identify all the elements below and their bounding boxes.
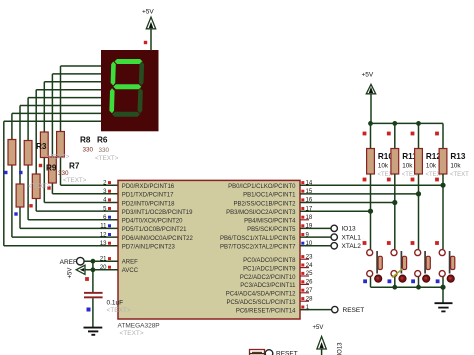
svg-text:PD6/AIN0/OC0A/PCINT22: PD6/AIN0/OC0A/PCINT22 xyxy=(122,236,194,242)
marker blue button 3 xyxy=(436,279,440,283)
wire R11 to net xyxy=(394,174,396,249)
pin marker 3 xyxy=(108,190,111,193)
resistor R13 10k xyxy=(439,149,447,175)
marker blue button 1 xyxy=(388,279,392,283)
wire MCU pin to col0 xyxy=(300,210,371,212)
marker red above R13 xyxy=(435,132,439,136)
segment B (off) xyxy=(139,62,144,86)
marker red below R11 xyxy=(387,178,391,182)
capacitor C1 0.1uF xyxy=(84,292,103,298)
component stub bottom xyxy=(250,350,265,355)
svg-text:26: 26 xyxy=(306,280,313,286)
pin marker 12 xyxy=(108,233,111,236)
pin marker 19 xyxy=(301,224,304,227)
wire bus to R10 top xyxy=(370,123,372,148)
svg-text:PB5/SCK/PCINT5: PB5/SCK/PCINT5 xyxy=(247,227,296,233)
svg-text:PC3/ADC3/PCINT11: PC3/ADC3/PCINT11 xyxy=(240,283,296,289)
wire pin10 to XTAL2 xyxy=(300,245,331,247)
marker red xyxy=(47,186,50,189)
terminal XTAL1 xyxy=(331,234,337,240)
wire reset bottom xyxy=(250,353,266,355)
svg-text:330: 330 xyxy=(99,147,110,154)
segment G (lit) xyxy=(113,84,141,89)
marker blue xyxy=(14,212,17,215)
resistor R8 330 on segment net 2 xyxy=(40,132,48,158)
junction bus col1 xyxy=(392,121,397,126)
junction bus col2 xyxy=(416,121,421,126)
svg-text:<TEXT>: <TEXT> xyxy=(120,330,144,337)
pin marker 16 xyxy=(301,198,304,201)
resistor R12 10k xyxy=(415,149,423,175)
svg-text:RESET: RESET xyxy=(276,351,298,355)
svg-text:XTAL2: XTAL2 xyxy=(342,243,362,250)
pin stub 1 xyxy=(300,309,309,311)
wire +5V bottom down xyxy=(321,349,323,355)
svg-text:+5V: +5V xyxy=(362,72,374,79)
7-segment display DS1 body xyxy=(101,50,159,131)
wire net seg6 from display to PD6 xyxy=(12,113,118,237)
svg-text:PD0/RXD/PCINT16: PD0/RXD/PCINT16 xyxy=(122,184,175,190)
wire bus to R13 top xyxy=(442,123,444,148)
segment F (lit) xyxy=(111,62,116,86)
svg-text:IO13: IO13 xyxy=(338,342,344,355)
button 2 press indicator xyxy=(392,269,402,278)
wire AVCC to MCU xyxy=(85,269,118,271)
svg-text:<TEXT>: <TEXT> xyxy=(28,184,51,190)
marker red below R12 xyxy=(411,178,415,182)
junction bus col0 xyxy=(368,121,373,126)
svg-text:IO13: IO13 xyxy=(342,226,356,233)
IC U1 ATMEGA328P body xyxy=(118,180,300,319)
resistor R7 330 on segment net 1 xyxy=(49,157,57,183)
marker red xyxy=(39,164,42,167)
push button SW4 xyxy=(439,250,455,288)
junction gnd bus 2 xyxy=(416,285,421,290)
pin stub 18 xyxy=(300,219,309,221)
pin marker 13 xyxy=(108,242,111,245)
pin marker 26 xyxy=(301,280,304,283)
marker red below R10 xyxy=(363,178,367,182)
junction col1 xyxy=(392,200,397,205)
marker red above button 1 xyxy=(387,241,391,245)
svg-text:PD5/T1/OC0B/PCINT21: PD5/T1/OC0B/PCINT21 xyxy=(122,227,187,233)
svg-text:PB2/SS/OC1B/PCINT2: PB2/SS/OC1B/PCINT2 xyxy=(233,201,296,207)
svg-text:PC6/RESET/PCINT14: PC6/RESET/PCINT14 xyxy=(236,308,296,314)
marker red above R11 xyxy=(387,132,391,136)
terminal XTAL2 xyxy=(331,243,337,249)
junction col0 xyxy=(368,209,373,214)
marker red above button 0 xyxy=(363,241,367,245)
wire AREF to MCU xyxy=(84,260,118,262)
pin marker 21 xyxy=(108,257,111,260)
pin stub 27 xyxy=(300,292,309,294)
svg-text:13: 13 xyxy=(100,241,107,247)
svg-text:PB6/TOSC1/XTAL1/PCINT6: PB6/TOSC1/XTAL1/PCINT6 xyxy=(220,236,296,242)
pin marker 24 xyxy=(301,264,304,267)
junction gnd bus 3 xyxy=(440,285,445,290)
marker red xyxy=(29,204,32,207)
power +5V bottom xyxy=(317,337,326,350)
pin marker 11 xyxy=(108,224,111,227)
wire net seg7 from display to PD7 xyxy=(4,121,118,246)
svg-text:PD2/INT0/PCINT18: PD2/INT0/PCINT18 xyxy=(122,201,175,207)
svg-text:28: 28 xyxy=(306,296,313,302)
marker blue cap xyxy=(87,308,91,312)
svg-text:<TEXT>: <TEXT> xyxy=(95,155,119,162)
svg-text:<TEXT>: <TEXT> xyxy=(47,155,70,161)
power +5V right xyxy=(366,84,375,94)
marker red xyxy=(144,41,147,44)
wire net seg4 from display to PD4 xyxy=(28,98,118,220)
svg-text:330: 330 xyxy=(83,147,94,154)
marker red above R10 xyxy=(363,132,367,136)
junction AREF xyxy=(91,259,96,264)
svg-text:PD7/AIN1/PCINT23: PD7/AIN1/PCINT23 xyxy=(122,245,176,251)
svg-text:ATMEGA328P: ATMEGA328P xyxy=(118,323,160,330)
svg-text:18: 18 xyxy=(306,215,313,221)
terminal AREF xyxy=(77,257,85,265)
svg-text:0.1uF: 0.1uF xyxy=(107,300,124,307)
pin stub 28 xyxy=(300,300,309,302)
svg-text:12: 12 xyxy=(100,232,107,238)
svg-text:PC5/ADC5/SCL/PCINT13: PC5/ADC5/SCL/PCINT13 xyxy=(226,300,296,306)
segment C (off) xyxy=(138,88,143,113)
svg-text:<TEXT>: <TEXT> xyxy=(63,177,87,184)
push button SW1 xyxy=(367,250,383,288)
svg-text:PC1/ADC1/PCINT9: PC1/ADC1/PCINT9 xyxy=(243,266,296,272)
wire net seg5 from display to PD5 xyxy=(20,106,118,229)
marker blue xyxy=(19,171,22,174)
svg-text:+5V: +5V xyxy=(142,9,154,16)
svg-text:23: 23 xyxy=(306,254,313,260)
wire +5V to bus xyxy=(370,94,372,124)
marker red cap xyxy=(85,277,89,281)
svg-text:<TEXT>: <TEXT> xyxy=(107,307,131,314)
junction gnd bus 1 xyxy=(392,285,397,290)
svg-text:PB0/ICP1/CLKO/PCINT0: PB0/ICP1/CLKO/PCINT0 xyxy=(228,184,296,190)
svg-text:R7: R7 xyxy=(69,162,80,171)
svg-text:R8: R8 xyxy=(80,136,91,145)
svg-text:PD3/INT1/OC2B/PCINT19: PD3/INT1/OC2B/PCINT19 xyxy=(122,210,193,216)
svg-text:PD4/T0/XCK/PCINT20: PD4/T0/XCK/PCINT20 xyxy=(122,219,183,225)
wire MCU pin to col2 xyxy=(300,193,419,195)
pin marker 23 xyxy=(301,255,304,258)
wire bus to ground xyxy=(442,287,444,302)
wire pin19 to IO13 xyxy=(300,227,331,229)
wire bus to R11 top xyxy=(394,123,396,148)
resistor R2 330 on segment net 6 xyxy=(8,140,16,166)
pin marker 20 xyxy=(108,266,111,269)
pin marker 18 xyxy=(301,216,304,219)
svg-text:PB3/MOSI/OC2A/PCINT3: PB3/MOSI/OC2A/PCINT3 xyxy=(226,210,296,216)
pin marker 4 xyxy=(108,198,111,201)
pin stub 24 xyxy=(300,267,309,269)
ground left xyxy=(84,328,103,335)
resistor R3 330 on segment net 4 xyxy=(24,141,32,166)
svg-text:AVCC: AVCC xyxy=(122,268,139,274)
wire R10 to net xyxy=(370,174,372,249)
marker red above R12 xyxy=(411,132,415,136)
svg-text:PB1/OC1A/PCINT1: PB1/OC1A/PCINT1 xyxy=(243,193,296,199)
svg-text:RESET: RESET xyxy=(343,307,365,314)
terminal IO13 xyxy=(331,225,337,231)
wire R12 to net xyxy=(418,174,420,249)
svg-text:PC4/ADC4/SDA/PCINT12: PC4/ADC4/SDA/PCINT12 xyxy=(226,292,296,298)
marker blue button 2 xyxy=(411,279,415,283)
svg-text:10k: 10k xyxy=(378,163,389,170)
svg-text:10k: 10k xyxy=(450,163,461,170)
svg-text:R9: R9 xyxy=(46,164,57,173)
pin marker 28 xyxy=(301,297,304,300)
wire bus to R12 top xyxy=(418,123,420,148)
wire MCU pin to col3 xyxy=(300,184,443,186)
junction col2 xyxy=(416,191,421,196)
pin marker 9 xyxy=(301,233,304,236)
segment E (lit) xyxy=(109,88,114,113)
wire pin9 to XTAL1 xyxy=(300,236,331,238)
segment A (lit) xyxy=(115,59,143,64)
wire net seg1 from display to PD1 xyxy=(52,74,118,194)
resistor R10 10k xyxy=(367,149,375,175)
pin marker 17 xyxy=(301,207,304,210)
resistor R11 10k xyxy=(391,149,399,175)
svg-text:330: 330 xyxy=(58,170,69,177)
svg-text:10k: 10k xyxy=(426,163,437,170)
svg-text:25: 25 xyxy=(306,271,313,277)
pin marker 25 xyxy=(301,272,304,275)
svg-text:<TEXT: <TEXT xyxy=(450,172,469,178)
pin marker 14 xyxy=(301,181,304,184)
resistor R9 330 on segment net 3 xyxy=(32,174,40,199)
junction col3 xyxy=(440,183,445,188)
svg-text:AREF: AREF xyxy=(122,260,138,266)
wire net seg0 from display to PD0 xyxy=(61,66,119,185)
marker blue xyxy=(4,171,7,174)
svg-text:AREF: AREF xyxy=(60,259,77,266)
wire net seg3 from display to PD3 xyxy=(36,90,118,211)
ground right xyxy=(435,303,453,311)
resistor R5 330 on segment net 5 xyxy=(16,184,24,207)
push button SW3 xyxy=(415,250,431,288)
pin marker 10 xyxy=(301,242,304,245)
svg-text:10k: 10k xyxy=(402,163,413,170)
wire pin1 to RESET xyxy=(300,309,331,311)
marker blue button 0 xyxy=(363,279,367,283)
wire cap to ground xyxy=(92,298,94,327)
svg-text:+5V: +5V xyxy=(313,325,324,331)
segment D (off) xyxy=(112,112,140,117)
junction AVCC xyxy=(91,267,96,272)
svg-text:11: 11 xyxy=(100,224,107,230)
pin stub 23 xyxy=(300,258,309,260)
wire R13 to net xyxy=(442,174,444,249)
wire net seg2 from display to PD2 xyxy=(44,82,118,203)
svg-text:R6: R6 xyxy=(97,136,108,145)
pin marker 2 xyxy=(108,181,111,184)
pin stub 25 xyxy=(300,275,309,277)
svg-text:XTAL1: XTAL1 xyxy=(342,234,362,241)
svg-text:27: 27 xyxy=(306,288,313,294)
svg-text:24: 24 xyxy=(306,263,313,269)
wire +5V to display xyxy=(150,29,152,51)
svg-text:PD1/TXD/PCINT17: PD1/TXD/PCINT17 xyxy=(122,193,174,199)
svg-text:PC0/ADC0/PCINT8: PC0/ADC0/PCINT8 xyxy=(243,258,296,264)
wire AVCC junction down xyxy=(92,261,94,292)
svg-text:PB4/MISO/PCINT4: PB4/MISO/PCINT4 xyxy=(244,219,296,225)
svg-text:R13: R13 xyxy=(450,152,465,161)
marker red below R13 xyxy=(435,178,439,182)
pin marker 27 xyxy=(301,289,304,292)
svg-text:PC2/ADC2/PCINT10: PC2/ADC2/PCINT10 xyxy=(240,275,296,281)
marker red above button 2 xyxy=(411,241,415,245)
pin marker 6 xyxy=(108,216,111,219)
terminal RESET bottom xyxy=(265,350,273,355)
pin stub 26 xyxy=(300,283,309,285)
wire button ground bus xyxy=(371,286,444,288)
pin marker 5 xyxy=(108,207,111,210)
svg-text:+5V: +5V xyxy=(68,268,74,279)
svg-text:R3: R3 xyxy=(36,142,47,151)
pin marker 15 xyxy=(301,190,304,193)
wire MCU pin to col1 xyxy=(300,202,395,204)
svg-text:PB7/TOSC2/XTAL2/PCINT7: PB7/TOSC2/XTAL2/PCINT7 xyxy=(220,245,296,251)
resistor R6 330 on segment net 0 xyxy=(57,132,65,158)
pin marker 1 xyxy=(301,306,304,309)
terminal RESET xyxy=(332,306,338,312)
push button SW2 xyxy=(391,250,407,288)
marker red above button 3 xyxy=(435,241,439,245)
power +5V top xyxy=(146,17,155,29)
wire pull-up bus xyxy=(371,122,444,124)
power +5V AVCC (left arrow) xyxy=(76,265,85,274)
